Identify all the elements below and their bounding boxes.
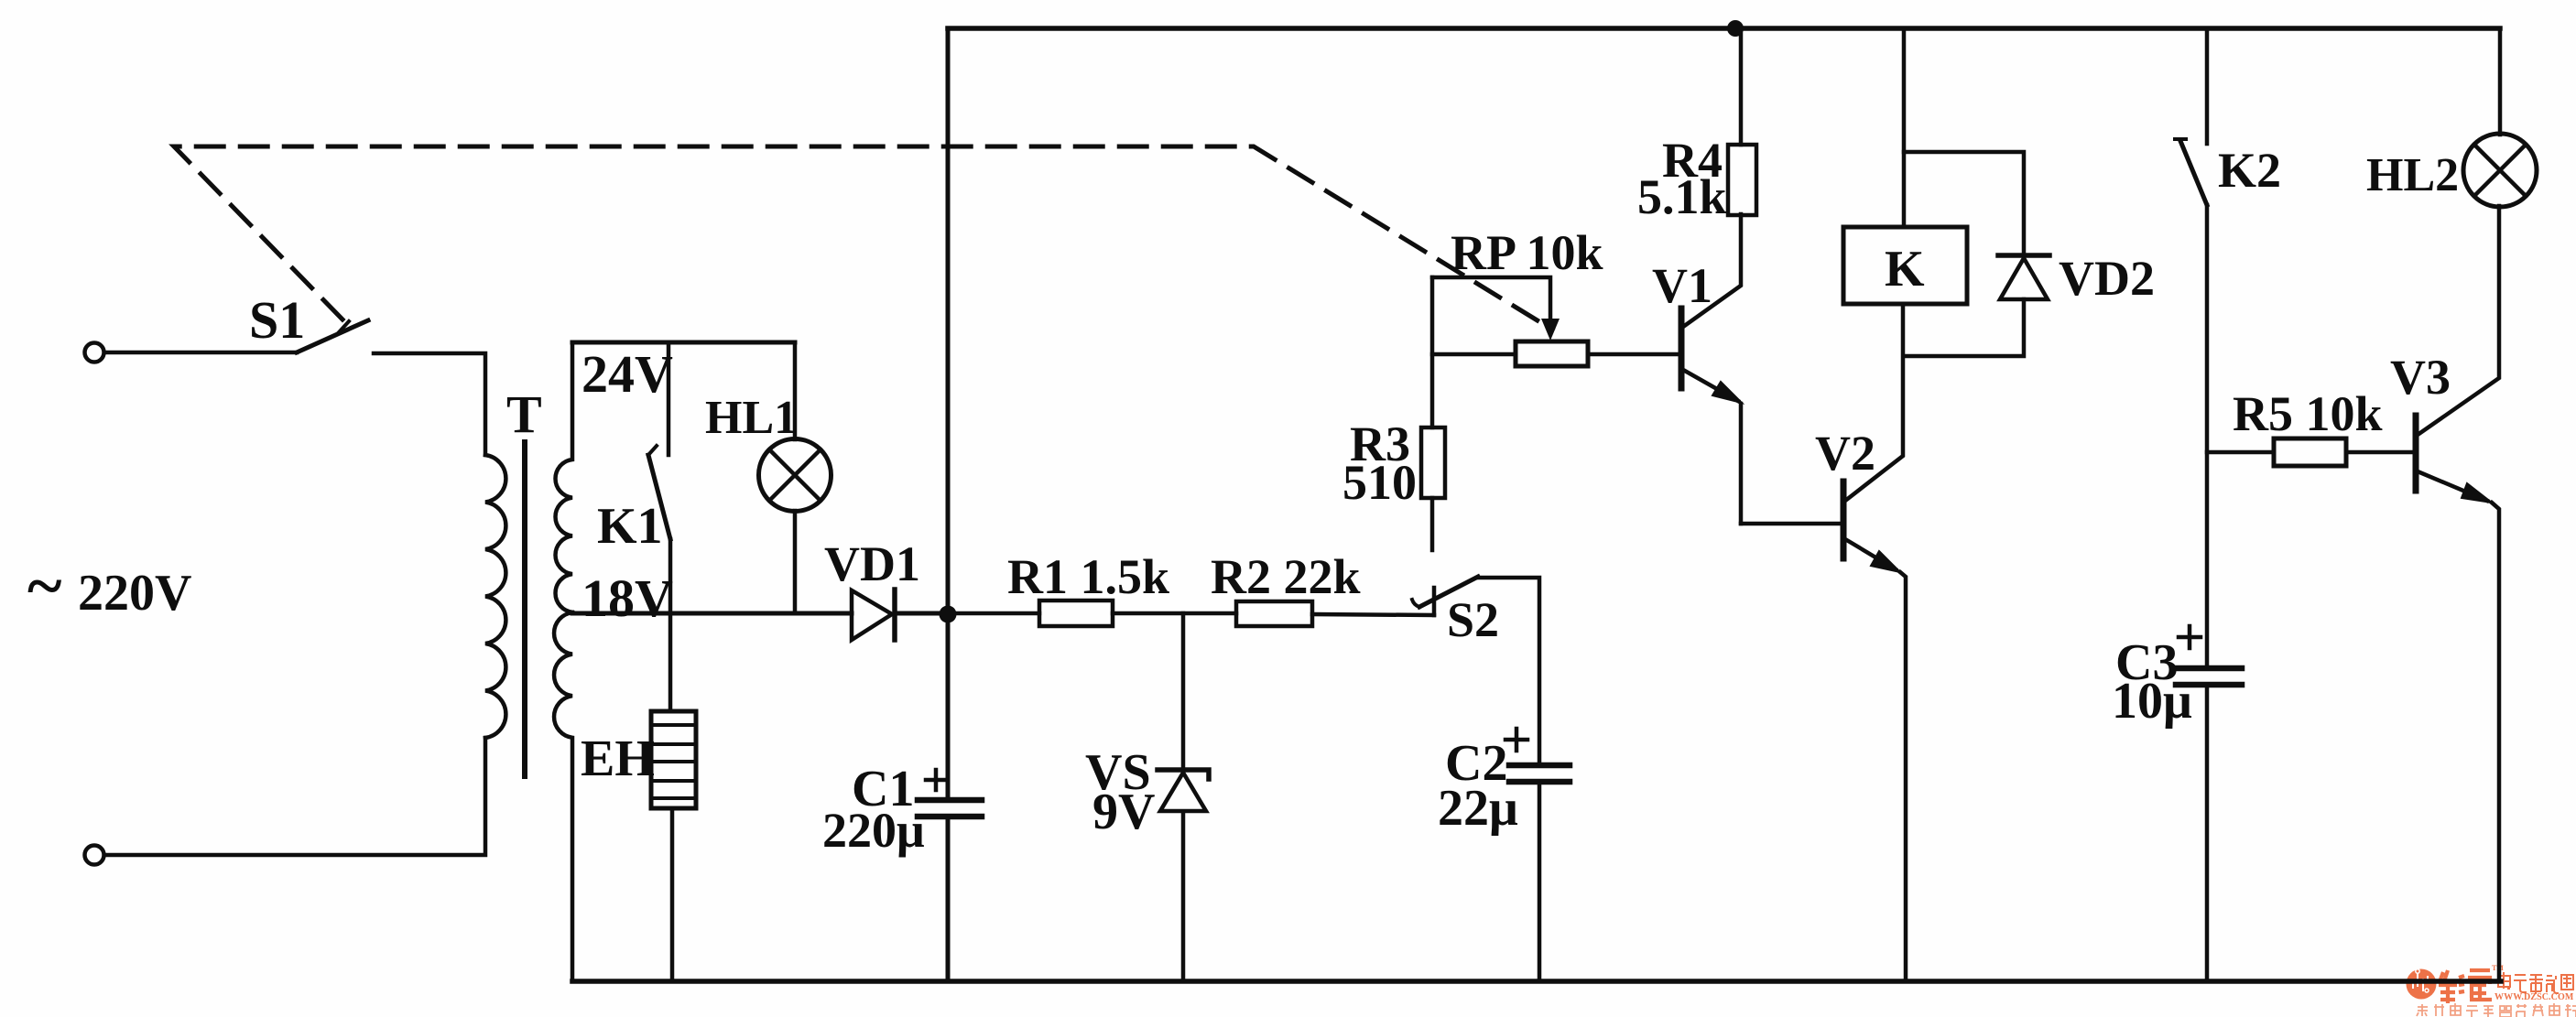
wire C2 to bottom rail	[1538, 784, 1542, 981]
svg-text:22μ: 22μ	[1438, 780, 1518, 837]
capacitor C2	[1505, 729, 1570, 782]
lamp HL2	[2463, 28, 2537, 207]
svg-text:K1: K1	[597, 498, 663, 555]
label C1 220u	[822, 761, 925, 858]
svg-text:510: 510	[1342, 455, 1417, 510]
svg-text:K2: K2	[2218, 143, 2281, 198]
svg-text:RP 10k: RP 10k	[1451, 225, 1603, 280]
label R3 510	[1342, 417, 1417, 510]
label C2 22u	[1438, 735, 1518, 837]
resistor R5	[2207, 438, 2412, 466]
wire V1 emitter to V2 base	[1741, 522, 1842, 526]
svg-text:S1: S1	[249, 290, 305, 350]
wire S2 corner down to C2	[1478, 578, 1539, 763]
svg-text:VD1: VD1	[824, 536, 920, 591]
resistor R1	[948, 600, 1236, 626]
svg-text:HL1: HL1	[705, 392, 798, 444]
resistor R4	[1728, 28, 1756, 215]
wire lower terminal to primary bottom	[104, 738, 485, 855]
wire VD1 cathode to bus junction	[895, 611, 948, 616]
wire EH to bottom rail	[670, 808, 675, 981]
transformer core	[522, 442, 527, 776]
diode VD2 parallel with relay	[1904, 152, 2049, 356]
diode VD1	[852, 590, 895, 640]
transformer T secondary winding lower section	[554, 612, 572, 981]
svg-text:220V: 220V	[78, 565, 191, 622]
svg-text:~: ~	[27, 549, 61, 622]
wire 24V rail	[572, 341, 795, 345]
resistor R2	[1236, 601, 1434, 626]
resistor R3	[1421, 427, 1445, 498]
label C3 10u	[2112, 634, 2192, 730]
wire top supply rail	[948, 26, 2500, 31]
svg-text:24V: 24V	[582, 344, 673, 404]
svg-text:V1: V1	[1652, 258, 1712, 313]
wire from upper terminal to S1	[104, 351, 297, 355]
svg-text:R2 22k: R2 22k	[1211, 549, 1361, 604]
wire HL1 to 18V line	[793, 511, 798, 613]
wire 18V tap line	[572, 611, 852, 616]
svg-text:V2: V2	[1815, 426, 1875, 481]
wire bottom ground rail	[572, 979, 2501, 984]
svg-text:V3: V3	[2390, 350, 2451, 405]
svg-text:S2: S2	[1447, 592, 1499, 647]
svg-text:9V: 9V	[1092, 784, 1155, 840]
svg-text:5.1k: 5.1k	[1637, 169, 1727, 224]
watermark slogan	[2417, 1003, 2576, 1017]
wire C3 to bottom rail	[2205, 687, 2210, 981]
wire main DC bus vertical	[946, 28, 951, 981]
switch S1	[297, 320, 368, 352]
wire K2 down to R5 junction and C3	[2205, 205, 2210, 666]
svg-text:VD2: VD2	[2059, 251, 2155, 306]
heater EH	[651, 711, 696, 808]
wire R3 up to potentiometer left terminal	[1430, 277, 1435, 427]
AC terminal upper	[85, 343, 104, 362]
svg-text:220μ: 220μ	[822, 803, 925, 858]
watermark logo	[2407, 969, 2437, 1000]
svg-text:18V: 18V	[582, 568, 673, 628]
label R4 5.1k	[1637, 133, 1727, 224]
node junction R4 top rail	[1727, 20, 1744, 37]
transistor V1	[1681, 214, 1742, 524]
lamp HL1	[759, 439, 831, 512]
watermark text weiku	[2439, 970, 2492, 1003]
wire R3 to S2 fixed contact	[1430, 498, 1435, 550]
switch K1	[648, 342, 670, 539]
AC terminal lower	[85, 846, 104, 865]
svg-text:R5 10k: R5 10k	[2233, 386, 2383, 441]
svg-text:K: K	[1885, 241, 1925, 298]
wire S1 to transformer primary top	[374, 353, 485, 455]
switch S2	[1412, 577, 1478, 615]
transistor V2	[1843, 304, 1906, 981]
svg-text:10μ: 10μ	[2112, 673, 2192, 730]
label VS 9V	[1085, 744, 1155, 840]
svg-text:R1 1.5k: R1 1.5k	[1007, 549, 1169, 604]
svg-text:T: T	[506, 384, 542, 444]
svg-text:EH: EH	[581, 730, 655, 787]
svg-text:WWW.DZSC.COM: WWW.DZSC.COM	[2494, 992, 2574, 1002]
svg-text:HL2: HL2	[2366, 149, 2459, 201]
relay coil K	[1843, 28, 1967, 304]
label ~220V	[27, 549, 191, 622]
capacitor C1	[918, 770, 982, 817]
transformer T primary winding	[485, 455, 505, 738]
switch K2	[2175, 28, 2207, 205]
wire HL1 branch from 24V rail	[793, 342, 798, 439]
node junction bus-VD1-R1	[940, 606, 957, 623]
potentiometer RP	[1432, 277, 1679, 366]
dashed mechanical linkage S1-RP	[174, 146, 1552, 330]
capacitor C3	[2176, 626, 2242, 685]
wire K1 to heater EH	[668, 539, 673, 711]
zener diode VS	[1158, 613, 1209, 981]
transformer T secondary winding upper section	[556, 342, 572, 612]
transistor V3	[2416, 206, 2499, 981]
watermark text dianzishichangwang	[2498, 972, 2573, 994]
